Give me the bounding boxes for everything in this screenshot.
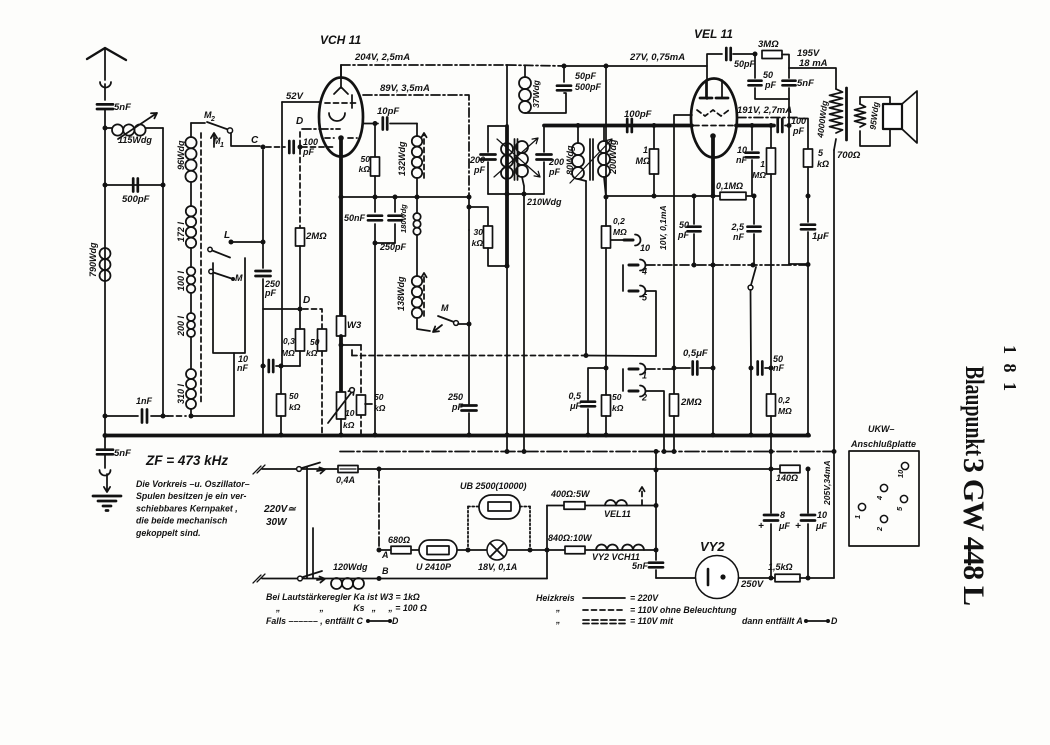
wire to tone row (789, 263, 808, 265)
svg-text:115Wdg: 115Wdg (118, 135, 152, 145)
svg-text:pF: pF (451, 402, 463, 412)
contact 2 (629, 390, 638, 393)
contact 1 (629, 368, 638, 371)
svg-text:310 l: 310 l (176, 383, 186, 404)
svg-text:2MΩ: 2MΩ (305, 231, 327, 242)
svg-text:M: M (441, 303, 449, 313)
svg-text:200: 200 (469, 155, 485, 165)
svg-text:„: „ (555, 615, 560, 625)
coil 96Wdg (185, 137, 196, 148)
capacitor 500pF (105, 184, 163, 186)
wire electrolytic left (770, 469, 772, 513)
wire T1 secondary to heater bus (522, 177, 524, 452)
resistor 2M&#937; (grid leak) (673, 368, 675, 394)
main grid line (544, 124, 634, 128)
svg-text:50: 50 (361, 154, 371, 164)
row 400ohm (547, 505, 656, 507)
svg-text:4: 4 (641, 267, 647, 277)
svg-text:D: D (392, 616, 399, 626)
wire box right (233, 353, 235, 416)
secondary 95Wdg (855, 104, 866, 127)
resistor 5k&#937; (800, 119, 808, 150)
contact 10 (611, 239, 629, 241)
capacitor 0,5uF (AF) (588, 368, 606, 400)
capacitor 50pF (anode) (754, 54, 756, 78)
svg-text:2: 2 (641, 393, 647, 403)
heater VEL11 (605, 500, 627, 505)
svg-text:MΩ: MΩ (613, 227, 627, 237)
resistor 3M&#937; (762, 51, 782, 59)
resistor 840&#937;:10W (565, 546, 585, 554)
svg-text:0,2: 0,2 (613, 216, 625, 226)
svg-text:138Wdg: 138Wdg (396, 276, 406, 311)
svg-text:L: L (224, 230, 230, 241)
svg-text:132Wdg: 132Wdg (397, 141, 407, 176)
svg-text:120Wdg: 120Wdg (333, 562, 368, 572)
tube VY2 (696, 556, 739, 599)
svg-text:4: 4 (875, 495, 884, 501)
svg-text:96Wdg: 96Wdg (176, 140, 186, 170)
capacitor 250pF (osc) (462, 406, 477, 411)
coil 172l (186, 206, 196, 216)
resistor 1,5k&#937; (775, 574, 800, 582)
svg-text:VEL11: VEL11 (604, 509, 631, 519)
wire T2 secondary down (604, 177, 606, 197)
svg-text:W3: W3 (347, 320, 362, 331)
svg-text:50: 50 (679, 220, 689, 230)
svg-text:MΩ: MΩ (778, 406, 792, 416)
switch M (211, 250, 230, 258)
svg-text:Blaupunkt: Blaupunkt (960, 366, 989, 456)
svg-text:die beide mechanisch: die beide mechanisch (136, 516, 227, 526)
capacitor 1nF (105, 415, 138, 417)
dashed arrow up (639, 487, 645, 505)
svg-text:30W: 30W (266, 517, 288, 528)
svg-text:pF: pF (548, 167, 560, 177)
svg-text:pF: pF (264, 288, 276, 298)
wire 1uF line to bus (807, 265, 809, 436)
wire C dashed to 100pF (266, 146, 285, 148)
wire 195V to transformer (789, 68, 836, 89)
svg-text:10: 10 (737, 145, 747, 155)
wire W3 to pot (339, 336, 343, 392)
svg-text:0,5μF: 0,5μF (683, 348, 708, 359)
coil 120Wdg (331, 578, 342, 589)
wire right branch vertical (162, 128, 164, 416)
wire anode 204V dash-dot (340, 65, 342, 78)
svg-text:500pF: 500pF (575, 82, 602, 92)
AF coupling row (606, 195, 754, 197)
svg-text:VY2: VY2 (700, 539, 725, 554)
capacitor 50pF (grid cap) (726, 48, 730, 60)
node 89V line (467, 195, 472, 200)
coil 310l (186, 369, 196, 379)
resistor 2M&#937; (296, 228, 305, 246)
svg-text:50: 50 (289, 391, 299, 401)
wire VEL top (707, 54, 722, 99)
fuse 0,4A (297, 467, 302, 472)
svg-text:200 l: 200 l (176, 315, 186, 337)
svg-text:2,5: 2,5 (730, 222, 745, 232)
svg-text:5nF: 5nF (632, 561, 649, 571)
heater return bus (340, 451, 834, 453)
capacitor 10nF (feedback) (750, 123, 755, 128)
svg-text:37Wdg: 37Wdg (531, 79, 541, 108)
svg-text:172 l: 172 l (176, 221, 186, 242)
node 500pF right (161, 183, 166, 188)
node D lower (298, 307, 303, 312)
node detector (604, 195, 609, 200)
wire to 0,5uF junction (604, 366, 609, 371)
svg-text:ZF = 473 kHz: ZF = 473 kHz (145, 453, 228, 468)
output transformer primary 4000Wdg (830, 89, 843, 133)
svg-text:kΩ: kΩ (612, 403, 624, 413)
svg-text:400Ω:5W: 400Ω:5W (550, 489, 591, 499)
svg-text:„ „: „ „ Ks „ „ = 100 Ω (275, 603, 427, 613)
svg-text:UB 2500(10000): UB 2500(10000) (460, 481, 527, 491)
grid3 wire (674, 115, 692, 368)
wire to bus (374, 243, 376, 435)
svg-text:= 110V mit: = 110V mit (630, 616, 674, 626)
wire contact5 to AF row (646, 291, 656, 356)
potentiometer 10k&#937; (337, 392, 346, 419)
coil 138Wdg (412, 276, 422, 286)
tone dash-dot row (646, 264, 808, 266)
shield box (213, 258, 245, 353)
svg-text:5nF: 5nF (114, 102, 131, 113)
svg-text:C: C (251, 135, 259, 146)
anode dash-dot 191V (737, 117, 800, 119)
svg-text:8: 8 (780, 510, 785, 520)
svg-text:pF: pF (792, 126, 804, 136)
wire screen to supply (506, 65, 508, 126)
coil 180Wdg (416, 197, 418, 213)
node 5k bottom (807, 167, 809, 196)
capacitor 10uF (801, 514, 815, 517)
svg-text:pF: pF (677, 230, 689, 240)
resistor 50k&#937; (osc grid) (374, 124, 376, 158)
tone switch (751, 267, 756, 285)
svg-text:10: 10 (345, 408, 355, 418)
svg-text:nF: nF (736, 155, 747, 165)
svg-text:250V: 250V (740, 579, 764, 590)
svg-text:3 GW 448 L: 3 GW 448 L (957, 458, 990, 606)
svg-text:50pF: 50pF (575, 71, 597, 81)
resistor W3 (337, 316, 346, 336)
resistor 1M&#937; (feedback) (769, 123, 774, 128)
svg-text:2: 2 (210, 116, 215, 123)
contact 5 (629, 290, 638, 293)
node mains A (377, 467, 382, 472)
svg-text:250pF: 250pF (379, 242, 407, 252)
svg-text:2: 2 (875, 526, 884, 532)
wire to 27V (564, 65, 606, 67)
resistor 680&#937; (391, 546, 411, 554)
resistor 50k&#937; (AF) (602, 395, 611, 416)
capacitor 2,5nF (753, 196, 755, 224)
svg-text:1: 1 (642, 371, 647, 381)
capacitor 50pF (tone) (693, 196, 695, 224)
capacitor 5nF (heater) (655, 550, 657, 560)
svg-text:Bei Lautstärkeregler Ka ist W: Bei Lautstärkeregler Ka ist W3 = 1kΩ (266, 592, 420, 602)
node antenna/coil (103, 126, 108, 131)
screen resistor 0,2M&#937; (605, 66, 607, 197)
mains line top (262, 468, 780, 470)
wire anode 89V dash-dot (363, 95, 469, 197)
svg-text:1μF: 1μF (812, 231, 829, 242)
svg-text:+: + (758, 521, 764, 532)
wire mains to heater link (545, 548, 550, 553)
svg-text:50: 50 (310, 337, 320, 347)
svg-text:1: 1 (853, 515, 862, 519)
svg-text:50pF: 50pF (734, 59, 756, 69)
resistor 30k&#937; (467, 205, 472, 210)
coil 200l (187, 313, 195, 321)
wire VEL cathode down (711, 136, 715, 196)
capacitor 250pF (C line) (256, 271, 271, 276)
svg-text:0,3: 0,3 (283, 336, 295, 346)
svg-text:840Ω:10W: 840Ω:10W (548, 533, 593, 543)
wire 2M to D node (299, 246, 301, 309)
node heater right (654, 548, 659, 553)
capacitor 200pF left (481, 155, 496, 160)
IF transformer T1 (488, 125, 507, 127)
svg-text:50nF: 50nF (344, 213, 366, 223)
svg-text:80Wdg: 80Wdg (565, 145, 575, 175)
wire C down (262, 150, 264, 268)
IF transformer T2 (577, 126, 579, 144)
svg-text:kΩ: kΩ (343, 420, 355, 430)
wire C-D link (263, 308, 300, 310)
svg-text:U 2410P: U 2410P (416, 562, 452, 572)
capacitor 100pF (grid) (289, 141, 293, 153)
wire D dashed down (299, 132, 301, 228)
wire VEL cathode to bus (712, 368, 714, 435)
mains line bottom (262, 578, 547, 580)
node AVC (279, 364, 284, 369)
svg-text:50: 50 (374, 392, 384, 402)
coil 100l (187, 267, 196, 276)
svg-text:pF: pF (302, 147, 314, 157)
tube VEL11 (691, 79, 737, 158)
svg-text:VEL 11: VEL 11 (694, 27, 733, 41)
wire chain (190, 182, 192, 206)
svg-text:250: 250 (447, 392, 463, 402)
svg-text:790Wdg: 790Wdg (88, 242, 98, 277)
wire plate line to second bus (506, 266, 508, 452)
svg-text:Die Vorkreis –u. Oszillator–: Die Vorkreis –u. Oszillator– (136, 479, 250, 489)
svg-text:nF: nF (237, 363, 248, 373)
coil 115Wdg (105, 127, 112, 129)
node chain bottom (161, 414, 166, 419)
svg-text:MΩ: MΩ (752, 170, 766, 180)
wire plate line down (505, 126, 509, 266)
coil 790Wdg (100, 248, 111, 259)
svg-text:205V,34mA: 205V,34mA (822, 460, 832, 506)
svg-text:181: 181 (1000, 345, 1020, 391)
svg-text:nF: nF (773, 363, 784, 373)
svg-text:M: M (235, 273, 243, 283)
svg-text:D: D (303, 295, 310, 306)
svg-text:50: 50 (763, 70, 773, 80)
coil T1 primary (501, 143, 513, 155)
svg-text:700Ω: 700Ω (837, 150, 861, 161)
wire 204V line to VEL (507, 65, 564, 66)
wire 1M down (770, 174, 772, 394)
heater row (379, 549, 656, 551)
capacitor 50nF (tone sw) (749, 366, 754, 371)
UKW pin 4 (880, 484, 887, 491)
antenna (87, 48, 126, 60)
wire electrolytic right (807, 469, 809, 513)
capacitor 5nF (to ground) (104, 436, 106, 449)
wire dashed to VCH11 grid (302, 146, 336, 148)
svg-text:„: „ (555, 603, 560, 613)
svg-text:VCH 11: VCH 11 (320, 33, 361, 47)
capacitor 10pF (363, 123, 378, 125)
wire VY2 right (739, 577, 776, 579)
resistor 1M&#937; (VEL grid) (652, 123, 657, 128)
svg-text:kΩ: kΩ (306, 348, 318, 358)
svg-text:0,5: 0,5 (568, 391, 582, 401)
switch link (306, 467, 308, 578)
svg-text:52V: 52V (286, 91, 304, 102)
svg-text:Heizkreis: Heizkreis (536, 593, 575, 603)
svg-text:Falls –––––– , entfällt C: Falls –––––– , entfällt C (266, 616, 363, 626)
wire 50k to bus dashed (321, 351, 323, 434)
resistor 140&#937; (769, 433, 774, 438)
wire M2 to C (231, 133, 260, 146)
wire 52V grid line (282, 101, 320, 103)
capacitor 50pF/500pF (563, 66, 565, 82)
svg-text:B: B (382, 566, 389, 576)
svg-text:191V, 2,7mA: 191V, 2,7mA (737, 105, 792, 116)
svg-text:220V≃: 220V≃ (263, 504, 296, 515)
svg-text:+: + (795, 521, 801, 532)
capacitor 200pF right (543, 125, 545, 152)
node 100pF right (298, 145, 303, 150)
ground (104, 474, 110, 492)
svg-text:50: 50 (612, 392, 622, 402)
capacitor 8uF (764, 514, 778, 517)
svg-text:30: 30 (474, 227, 484, 237)
wire primary bottom down (834, 139, 836, 150)
wire to VY2 (656, 577, 696, 579)
capacitor 10nF (AVC) (261, 364, 266, 369)
svg-text:2MΩ: 2MΩ (680, 397, 702, 408)
svg-text:kΩ: kΩ (472, 238, 484, 248)
svg-text:= 110V ohne Beleuchtung: = 110V ohne Beleuchtung (630, 605, 737, 615)
capacitor 100pF (tone corr) (736, 124, 774, 128)
svg-text:10: 10 (817, 510, 827, 520)
speaker (860, 97, 890, 104)
svg-text:18V, 0,1A: 18V, 0,1A (478, 562, 517, 572)
svg-text:Anschlußplatte: Anschlußplatte (850, 439, 916, 449)
transformer core (845, 88, 848, 140)
svg-text:1: 1 (643, 145, 648, 155)
capacitor 0,5uF (coupling) (672, 366, 677, 371)
svg-text:1: 1 (220, 142, 224, 149)
svg-text:89V, 3,5mA: 89V, 3,5mA (380, 83, 430, 94)
ground bus (105, 434, 809, 438)
wire contact2 down (646, 391, 664, 452)
resistor 400&#937;:5W (564, 502, 585, 510)
wire anode junction down (788, 99, 790, 264)
svg-text:100pF: 100pF (624, 109, 652, 120)
tube VCH11 (319, 78, 363, 157)
svg-text:kΩ: kΩ (374, 403, 386, 413)
coil T1 secondary (516, 141, 528, 153)
capacitor 1uF (807, 196, 809, 222)
svg-text:200Wdg: 200Wdg (608, 139, 618, 175)
capacitor 50nF (cathode) (374, 197, 376, 212)
svg-text:5nF: 5nF (114, 448, 131, 459)
resistor 0,3M&#937; (296, 329, 305, 351)
wire AVC row dashed (351, 350, 353, 356)
UKW pin 5 (900, 495, 907, 502)
svg-text:gekoppelt sind.: gekoppelt sind. (135, 528, 201, 538)
resistor 0,2M&#937; (output grid) (767, 394, 776, 416)
svg-text:200: 200 (548, 157, 564, 167)
node C (261, 145, 266, 150)
capacitor 250pF (cathode) (394, 197, 396, 212)
svg-text:1: 1 (760, 159, 765, 169)
node cathode VCH11 (338, 135, 344, 141)
wire T1 bottom (488, 193, 544, 195)
svg-text:pF: pF (473, 165, 485, 175)
wire D to 50k dashed (303, 309, 322, 329)
svg-text:210Wdg: 210Wdg (526, 197, 562, 207)
svg-text:10V, 0,1mA: 10V, 0,1mA (658, 205, 668, 250)
svg-text:180Wdg: 180Wdg (399, 204, 408, 233)
UKW pin 10 (901, 462, 908, 469)
node 500pF left (103, 183, 108, 188)
svg-text:100: 100 (303, 137, 318, 147)
svg-text:pF: pF (764, 80, 776, 90)
switch M osc (417, 318, 430, 331)
wire D dash-dot to tube (302, 128, 340, 130)
svg-text:μF: μF (778, 521, 790, 531)
trap coil 37Wdg (524, 66, 526, 77)
svg-text:0,1MΩ: 0,1MΩ (716, 181, 743, 191)
wire L (231, 241, 263, 243)
svg-text:140Ω: 140Ω (776, 473, 798, 483)
coil 132Wdg (416, 124, 418, 137)
svg-text:kΩ: kΩ (289, 402, 301, 412)
wire coil chain top (191, 122, 205, 124)
resistor 50k&#937; (AVC) (280, 366, 282, 394)
svg-text:10: 10 (640, 243, 650, 253)
svg-text:0,2: 0,2 (778, 395, 790, 405)
svg-text:5nF: 5nF (797, 78, 814, 89)
svg-text:100 l: 100 l (176, 270, 186, 291)
svg-text:MΩ: MΩ (281, 348, 295, 358)
contact 4 (629, 264, 638, 267)
core dashed link (200, 133, 202, 404)
svg-text:kΩ: kΩ (359, 164, 371, 174)
svg-text:0,4A: 0,4A (336, 475, 355, 485)
svg-text:kΩ: kΩ (817, 159, 829, 169)
capacitor 5nF (anode) (783, 81, 796, 86)
capacitor 5nF (antenna) (97, 104, 113, 109)
UKW pin 1 (858, 503, 865, 510)
svg-text:MΩ: MΩ (635, 156, 650, 166)
svg-text:A: A (381, 550, 389, 560)
svg-text:schiebbares Kernpaket ,: schiebbares Kernpaket , (136, 503, 238, 513)
svg-text:dann entfällt A: dann entfällt A (742, 616, 803, 626)
wire mains right vertical (655, 452, 657, 551)
svg-text:Spulen besitzen je ein ver-: Spulen besitzen je ein ver- (136, 491, 247, 501)
